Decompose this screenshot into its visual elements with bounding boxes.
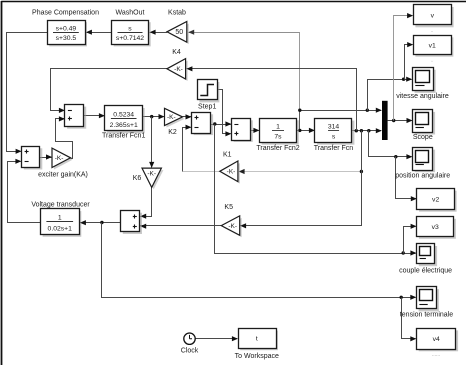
svg-text:position angulaire: position angulaire	[395, 172, 450, 179]
svg-text:Clock: Clock	[181, 347, 199, 354]
svg-text:1: 1	[276, 123, 280, 130]
svg-text:7s: 7s	[274, 133, 282, 140]
svg-text:Scope: Scope	[413, 134, 433, 141]
svg-text:v4: v4	[433, 336, 440, 343]
svg-text:vitesse angulaire: vitesse angulaire	[396, 93, 449, 100]
svg-text:0.5234: 0.5234	[113, 111, 134, 118]
svg-text:2.365s+1: 2.365s+1	[110, 122, 138, 129]
svg-text:s: s	[332, 133, 336, 140]
svg-text:50: 50	[175, 29, 183, 36]
svg-text:s+30.5: s+30.5	[56, 35, 77, 42]
svg-text:Step1: Step1	[198, 103, 216, 110]
svg-text:K2: K2	[168, 129, 177, 136]
svg-text:t: t	[256, 336, 258, 343]
svg-text:exciter gain(KA): exciter gain(KA)	[38, 172, 88, 179]
svg-text:......: ......	[432, 352, 440, 358]
svg-text:Transfer Fcn: Transfer Fcn	[314, 145, 354, 152]
svg-text:WashOut: WashOut	[116, 10, 145, 17]
svg-text:1: 1	[58, 215, 62, 222]
svg-text:..: ..	[431, 28, 434, 34]
svg-text:Phase Compensation: Phase Compensation	[32, 10, 99, 17]
svg-text:v1: v1	[429, 42, 436, 49]
svg-text:K5: K5	[224, 204, 233, 211]
svg-text:couple électrique: couple électrique	[399, 268, 452, 275]
svg-text:K1: K1	[223, 152, 232, 159]
svg-text:s+0.7142: s+0.7142	[116, 35, 144, 42]
svg-text:s+0.49: s+0.49	[56, 25, 77, 32]
svg-text:-K-: -K-	[55, 155, 64, 162]
svg-text:Voltage transducer: Voltage transducer	[31, 201, 90, 208]
svg-text:-K-: -K-	[228, 223, 237, 230]
svg-text:tension terminale: tension terminale	[400, 312, 453, 319]
svg-text:Transfer Fcn1: Transfer Fcn1	[102, 133, 145, 140]
svg-text:-K-: -K-	[174, 66, 183, 73]
svg-text:v2: v2	[432, 196, 439, 203]
svg-text:To Workspace: To Workspace	[235, 353, 279, 360]
svg-text:-K-: -K-	[147, 171, 156, 178]
svg-text:K6: K6	[133, 175, 142, 182]
svg-text:s: s	[128, 25, 132, 32]
svg-text:-K-: -K-	[167, 114, 176, 121]
svg-text:Transfer Fcn2: Transfer Fcn2	[256, 145, 299, 152]
svg-text:Kstab: Kstab	[168, 10, 186, 17]
svg-text:..: ..	[431, 58, 434, 64]
svg-text:v: v	[431, 12, 435, 19]
svg-text:0.02s+1: 0.02s+1	[48, 225, 73, 232]
svg-text:v3: v3	[432, 224, 439, 231]
svg-text:K4: K4	[172, 49, 181, 56]
svg-text:314: 314	[328, 124, 340, 131]
svg-text:-K-: -K-	[227, 169, 236, 176]
